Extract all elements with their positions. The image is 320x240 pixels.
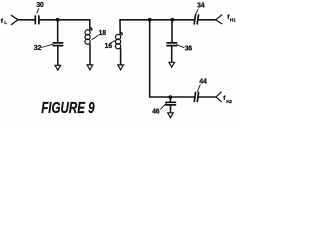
wire C30 to corner over L18	[39, 19, 90, 21]
wire corner down to L18	[89, 20, 91, 30]
wire corner down to L16	[119, 20, 121, 35]
label 16	[105, 43, 113, 50]
label fH2	[223, 95, 232, 104]
wire C32 to ground	[57, 46, 59, 67]
leader 30	[37, 9, 39, 13]
svg-text:34: 34	[197, 2, 205, 9]
wire port to C30	[18, 19, 35, 21]
inductor L18	[85, 28, 92, 45]
leader 44	[197, 85, 200, 92]
svg-text:36: 36	[185, 45, 193, 52]
ground G1	[55, 65, 61, 70]
node junction D	[169, 95, 173, 99]
leader 16	[111, 40, 116, 43]
label 34	[197, 2, 205, 9]
port fL input arrow	[11, 15, 18, 24]
wire junction D down	[169, 97, 171, 102]
capacitor C44	[194, 93, 198, 102]
label fH1	[227, 14, 236, 23]
caption FIGURE 9	[41, 100, 94, 117]
node junction A	[56, 18, 60, 22]
svg-text:FIGURE 9: FIGURE 9	[41, 100, 94, 117]
label 18	[99, 30, 107, 37]
svg-text:18: 18	[99, 30, 107, 37]
wire riser junction B down to lower branch	[149, 20, 151, 97]
leader 36	[177, 45, 184, 48]
leader 46	[161, 103, 167, 109]
ground G5	[168, 113, 174, 118]
capacitor C32	[53, 43, 62, 46]
svg-text:16: 16	[105, 43, 113, 50]
svg-text:46: 46	[152, 109, 160, 116]
label 36	[185, 45, 193, 52]
inductor L16	[116, 32, 123, 49]
wire junction C down	[171, 20, 173, 43]
svg-text:H1: H1	[230, 18, 236, 23]
label 46	[152, 109, 160, 116]
node junction C	[171, 18, 175, 22]
svg-text:30: 30	[36, 2, 44, 9]
svg-text:H2: H2	[226, 99, 232, 104]
ground G2	[87, 65, 93, 70]
wire corner over L16 to C34	[120, 19, 195, 21]
leader 32	[41, 44, 53, 47]
capacitor C30	[35, 16, 39, 24]
wire junction A down	[57, 20, 59, 43]
label 32	[34, 45, 42, 52]
ground G3	[118, 65, 124, 70]
wire C36 to ground	[171, 46, 173, 64]
wire L18 to ground	[89, 44, 91, 66]
label 30	[36, 2, 44, 9]
label fL	[1, 18, 7, 25]
wire C34 to port fH1	[198, 19, 216, 21]
svg-text:32: 32	[34, 45, 42, 52]
wire lower branch to C44	[150, 96, 195, 98]
leader 18	[92, 35, 98, 40]
svg-text:L: L	[4, 20, 7, 25]
port fH1 output arrow	[216, 15, 222, 24]
label 44	[199, 79, 207, 86]
capacitor C36	[167, 43, 177, 46]
capacitor C46	[166, 102, 176, 105]
wire C44 to port fH2	[198, 96, 216, 98]
wire L16 to ground	[120, 49, 122, 66]
wire C46 to ground	[170, 105, 172, 114]
capacitor C34	[194, 15, 198, 24]
ground G4	[169, 62, 175, 67]
port fH2 output arrow	[216, 92, 221, 102]
leader 34	[196, 9, 199, 14]
node junction B	[148, 18, 152, 22]
